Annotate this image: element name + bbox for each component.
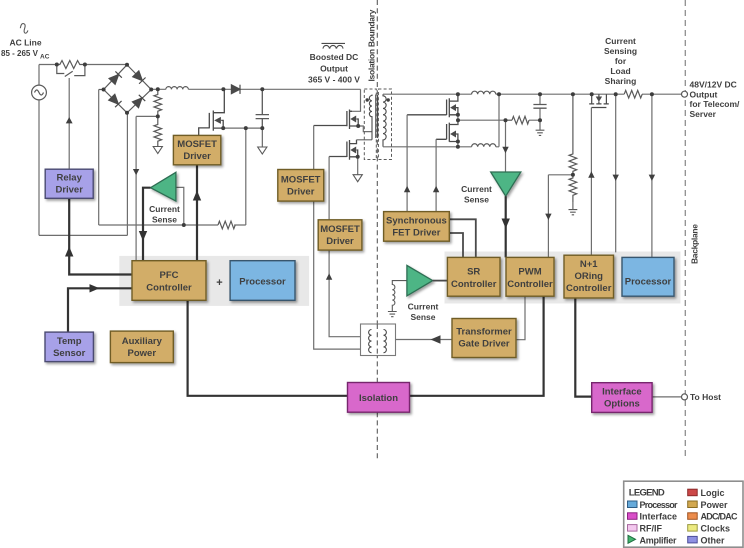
svg-text:Sharing: Sharing (605, 76, 637, 86)
wire secondary top rail (383, 93, 682, 95)
svg-text:Controller: Controller (146, 283, 192, 294)
svg-text:AC: AC (40, 54, 50, 61)
wire A1 output to PFC controller (139, 188, 151, 261)
wire T2 to transformer gate driver (396, 335, 453, 343)
isolation boundary dashes through T2 (376, 324, 378, 356)
node: To Host label (690, 392, 721, 402)
block Isolation (348, 383, 410, 413)
node: Current Sense label (A1) (149, 204, 180, 225)
node: Boosted DC Output label (308, 52, 360, 85)
block Synchronous FET Driver (384, 212, 450, 242)
node: Isolation Boundary label (366, 9, 376, 81)
wire bridge negative return to shunt (99, 90, 246, 226)
svg-text:Output: Output (690, 89, 718, 99)
svg-text:Sense: Sense (152, 214, 177, 224)
amplifier A3 current sense (down) input wire (502, 120, 508, 172)
capacitor C-boost (256, 89, 269, 128)
resistor divider R4 output sense (569, 175, 577, 202)
svg-text:FET Driver: FET Driver (392, 228, 440, 239)
svg-text:Logic: Logic (701, 488, 725, 498)
relay coil wire (66, 78, 73, 169)
legend Processor swatch (628, 501, 638, 508)
svg-text:for: for (615, 56, 627, 66)
svg-text:Sense: Sense (464, 195, 489, 205)
node: Backplane label (690, 224, 700, 264)
legend Amplifier swatch (628, 535, 636, 543)
legend Clocks swatch (688, 525, 698, 532)
wire divider tap to PWM controller (545, 175, 573, 258)
wire ORing FET gate to N+1 controller (588, 108, 594, 256)
svg-text:Boosted DC: Boosted DC (310, 52, 359, 62)
resistor divider R1 (bridge sense) (154, 89, 162, 116)
legend RF/IF swatch (628, 525, 638, 532)
wire Q3 source to ground (357, 157, 359, 175)
ground (open triangle) under boost cap (258, 128, 267, 154)
resistor R-shunt (218, 221, 235, 229)
block SR Controller (447, 257, 500, 296)
svg-text:Interface: Interface (602, 387, 642, 398)
svg-text:MOSFET: MOSFET (281, 174, 321, 185)
wire relay driver to PFC controller (65, 198, 132, 274)
svg-text:Gate Driver: Gate Driver (458, 339, 510, 350)
amplifier A2 input coil (388, 281, 407, 317)
svg-text:ADC/DAC: ADC/DAC (701, 512, 739, 522)
legend Interface swatch (628, 513, 638, 520)
svg-text:Backplane: Backplane (690, 224, 700, 264)
svg-text:To Host: To Host (690, 392, 721, 402)
amplifier A2 current sense triangle (407, 265, 433, 296)
svg-text:RF/IF: RF/IF (640, 524, 663, 534)
svg-text:Driver: Driver (287, 186, 315, 197)
block Temp Sensor (45, 332, 93, 362)
svg-text:Sense: Sense (410, 312, 435, 322)
transformer T2 gate drive box (361, 324, 396, 356)
svg-text:Other: Other (701, 535, 726, 545)
block Processor (secondary) (622, 257, 674, 296)
block Interface Options (592, 383, 652, 413)
svg-text:Transformer: Transformer (456, 327, 512, 338)
legend Other swatch (688, 536, 698, 543)
wire PWM controller to transformer gate driver (516, 296, 525, 340)
gray band secondary group (445, 252, 681, 304)
backplane dashed line (684, 0, 686, 460)
node: output terminal circle (682, 91, 688, 97)
bridge diode top-left (109, 71, 122, 84)
block Relay Driver (45, 169, 93, 198)
node: plus sign (216, 277, 222, 289)
bridge diode top-right (133, 71, 146, 84)
wire divider tap to PFC (133, 116, 158, 260)
svg-text:Current: Current (408, 302, 439, 312)
wire interface options to host (652, 396, 682, 398)
svg-text:Temp: Temp (57, 336, 82, 347)
transistor Q3 primary low-side MOSFET (329, 140, 358, 160)
svg-text:48V/12V DC: 48V/12V DC (690, 80, 737, 90)
gray band PFC group (119, 256, 309, 306)
svg-text:Processor: Processor (625, 277, 672, 288)
wire Q2 gate line down to MOSFET driver (314, 126, 361, 350)
AC sine symbol (20, 24, 28, 34)
wire PFC controller to isolation (188, 300, 348, 396)
block Processor (PFC) (230, 261, 295, 301)
svg-text:Synchronous: Synchronous (386, 216, 447, 227)
resistor R-sense mid (506, 116, 530, 124)
node: 48V/12V DC Output label (690, 80, 741, 119)
block Transformer Gate Driver (452, 319, 516, 358)
svg-text:Driver: Driver (55, 185, 83, 196)
svg-text:MOSFET: MOSFET (320, 224, 360, 235)
wire Q2 source to primary winding (358, 126, 372, 132)
inductor symbol above label (322, 43, 346, 48)
bridge diode bottom-right (132, 95, 145, 108)
svg-text:Current: Current (605, 36, 636, 46)
junction dots (55, 63, 654, 228)
wire sync driver outputs to SR controller (449, 219, 476, 257)
block Auxiliary Power (110, 331, 173, 363)
transformer T1 primary winding (369, 95, 372, 140)
transformer T1 core (376, 95, 378, 139)
svg-text:Options: Options (604, 399, 640, 410)
block PFC Controller (132, 261, 206, 301)
bridge diode bottom-left (109, 94, 122, 107)
inductor L-out bottom (472, 144, 496, 147)
wire N+1 controller to interface options (575, 298, 591, 397)
resistor divider R2 (bridge sense) (154, 116, 162, 146)
block MOSFET Driver 1 (173, 135, 220, 164)
svg-text:Current: Current (461, 184, 492, 194)
AC source V1 (32, 85, 47, 100)
legend Power swatch (688, 501, 698, 508)
wire AC line top (39, 65, 127, 236)
svg-text:Relay: Relay (57, 173, 83, 184)
wire rail sense line 2 (649, 94, 655, 257)
svg-text:for Telecom/: for Telecom/ (690, 99, 741, 109)
node: To Host terminal circle (682, 394, 688, 400)
ground (open triangle) Q3 source (353, 175, 362, 182)
svg-text:AC Line: AC Line (9, 38, 41, 48)
svg-text:MOSFET: MOSFET (177, 139, 217, 150)
isolation boundary dashed line (376, 0, 378, 461)
transformer T1 secondary phasing dot (387, 98, 390, 101)
wire isolation to PWM controller (410, 296, 544, 396)
svg-text:Auxiliary: Auxiliary (122, 336, 163, 347)
wire secondary bottom rail (383, 94, 499, 147)
wire boost rail (151, 89, 360, 111)
svg-text:Server: Server (690, 109, 717, 119)
block MOSFET Driver 3 (318, 220, 362, 250)
legend Logic swatch (688, 489, 698, 496)
node: AC Line label (1, 38, 50, 61)
wire boost source node (223, 127, 262, 129)
bridge rectifier D1 (99, 65, 152, 113)
node: Current Sense label (A3) (461, 184, 492, 205)
svg-text:85 - 265 V: 85 - 265 V (1, 49, 39, 58)
inductor L-out top (472, 91, 496, 94)
legend box (624, 481, 743, 547)
block PWM Controller (506, 257, 554, 296)
transistor Q1 boost MOSFET (199, 89, 225, 135)
wire sync gate lines to driver (404, 115, 439, 212)
resistor divider R3 output sense (569, 94, 577, 175)
svg-text:Output: Output (320, 64, 348, 74)
svg-text:Interface: Interface (640, 512, 678, 522)
relay K1 contact (57, 65, 85, 77)
svg-text:ORing: ORing (574, 271, 603, 282)
node: Current Sense label (A2) (408, 302, 439, 323)
svg-text:Processor: Processor (640, 500, 678, 510)
transformer T1 secondary winding (383, 94, 386, 147)
wire A2 output to SR controller (433, 280, 448, 282)
inductor L-boost (166, 87, 189, 90)
svg-text:Isolation Boundary: Isolation Boundary (366, 9, 376, 81)
node: Current Sensing for Load Sharing label (604, 36, 637, 86)
svg-text:Current: Current (149, 204, 180, 214)
svg-text:PFC: PFC (160, 270, 179, 281)
svg-text:SR: SR (467, 267, 480, 278)
wire temp sensor to PFC controller (68, 284, 132, 332)
svg-text:Sensing: Sensing (604, 46, 637, 56)
wire Q3 drain to primary winding (357, 139, 373, 141)
capacitor C-out (533, 105, 546, 109)
svg-text:Sensor: Sensor (53, 348, 86, 359)
svg-text:Power: Power (701, 500, 729, 510)
block N+1 ORing Controller (564, 255, 614, 298)
wire Q3 gate line down (326, 157, 361, 337)
transistor Q5 sync FET bottom (436, 120, 458, 142)
svg-text:PWM: PWM (518, 267, 541, 278)
wire shunt tap to amp input (176, 187, 184, 225)
svg-text:Amplifier: Amplifier (640, 535, 677, 545)
transformer T1 dashed boxes (364, 89, 391, 160)
wire sync FET node to output (458, 94, 540, 147)
svg-text:+: + (216, 277, 222, 289)
svg-text:Processor: Processor (239, 277, 286, 288)
svg-text:Controller: Controller (566, 283, 612, 294)
svg-text:365 V - 400 V: 365 V - 400 V (308, 75, 360, 85)
block MOSFET Driver 2 (278, 170, 324, 202)
transformer T1 primary phasing dot (366, 98, 369, 101)
legend ADC/DAC swatch (688, 513, 698, 520)
ground (earth) under divider (569, 202, 578, 215)
resistor R-loadshare (624, 90, 642, 98)
svg-text:LEGEND: LEGEND (629, 488, 665, 499)
transistor Q2 primary high-side MOSFET (314, 110, 359, 130)
wire A3 output to PWM controller (502, 196, 510, 257)
amplifier A3 current sense triangle (491, 172, 521, 196)
svg-text:Clocks: Clocks (701, 524, 731, 534)
wire rail sense line 1 (613, 94, 619, 252)
ground (open triangle) under divider (153, 147, 162, 154)
transistor Q6 ORing FET (589, 94, 609, 107)
svg-text:Controller: Controller (507, 279, 553, 290)
svg-text:Load: Load (610, 66, 630, 76)
svg-text:Driver: Driver (183, 151, 211, 162)
wire MOSFET driver to PFC controller (193, 165, 201, 261)
fuse F1 (57, 61, 83, 69)
svg-text:N+1: N+1 (580, 259, 598, 270)
svg-text:Driver: Driver (326, 236, 354, 247)
svg-text:Controller: Controller (451, 279, 497, 290)
svg-text:Power: Power (128, 348, 157, 359)
transistor Q4 sync FET top (407, 94, 458, 117)
svg-text:Isolation: Isolation (359, 393, 398, 404)
diode D-boost (231, 85, 240, 94)
amplifier A1 PFC current sense triangle (151, 172, 176, 201)
ground (earth) under C-out (536, 120, 545, 135)
